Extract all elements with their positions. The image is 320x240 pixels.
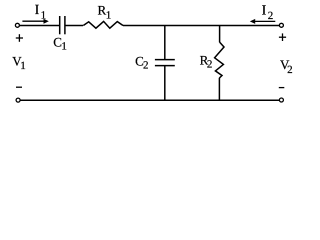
capacitor C2 branch wire from top — [164, 26, 166, 60]
label R2 — [200, 52, 213, 70]
label I1 — [35, 3, 47, 22]
label V2 — [280, 57, 293, 76]
current arrow I1 — [22, 19, 48, 24]
wire top-left to C1 — [20, 25, 60, 27]
wire R2 to bottom — [218, 78, 220, 100]
svg-text:2: 2 — [287, 64, 293, 76]
label C1 — [53, 34, 67, 52]
wire R1 to terminal top-right — [123, 25, 279, 27]
svg-text:2: 2 — [207, 59, 213, 71]
svg-text:I: I — [262, 4, 267, 19]
minus sign port 2 — [279, 87, 285, 89]
wire C1 to R1 — [65, 25, 83, 27]
svg-text:1: 1 — [41, 10, 47, 22]
svg-text:2: 2 — [268, 10, 274, 22]
capacitor C1 — [60, 16, 65, 34]
bottom wire — [20, 99, 279, 101]
svg-text:1: 1 — [20, 60, 26, 72]
terminal top-right (port 2 +) — [279, 23, 283, 27]
plus sign port 2 — [279, 33, 286, 41]
terminal bottom-left (port 1 -) — [16, 98, 20, 102]
label I2 — [262, 4, 274, 23]
svg-text:1: 1 — [106, 10, 112, 22]
resistor R2 branch wire from top — [219, 26, 221, 43]
capacitor C2 — [155, 60, 175, 66]
label V1 — [12, 54, 25, 73]
svg-text:I: I — [35, 3, 40, 18]
svg-text:2: 2 — [143, 60, 149, 72]
resistor R1 — [83, 21, 123, 28]
plus sign port 1 — [16, 34, 23, 42]
terminal top-left (port 1 +) — [15, 23, 19, 27]
resistor R2 — [215, 42, 224, 78]
label R1 — [98, 3, 112, 22]
current arrow I2 — [250, 19, 275, 24]
wire C2 to bottom — [164, 66, 166, 100]
svg-text:1: 1 — [61, 41, 67, 53]
minus sign port 1 — [16, 86, 22, 88]
label C2 — [135, 53, 148, 71]
terminal bottom-right (port 2 -) — [279, 98, 283, 102]
